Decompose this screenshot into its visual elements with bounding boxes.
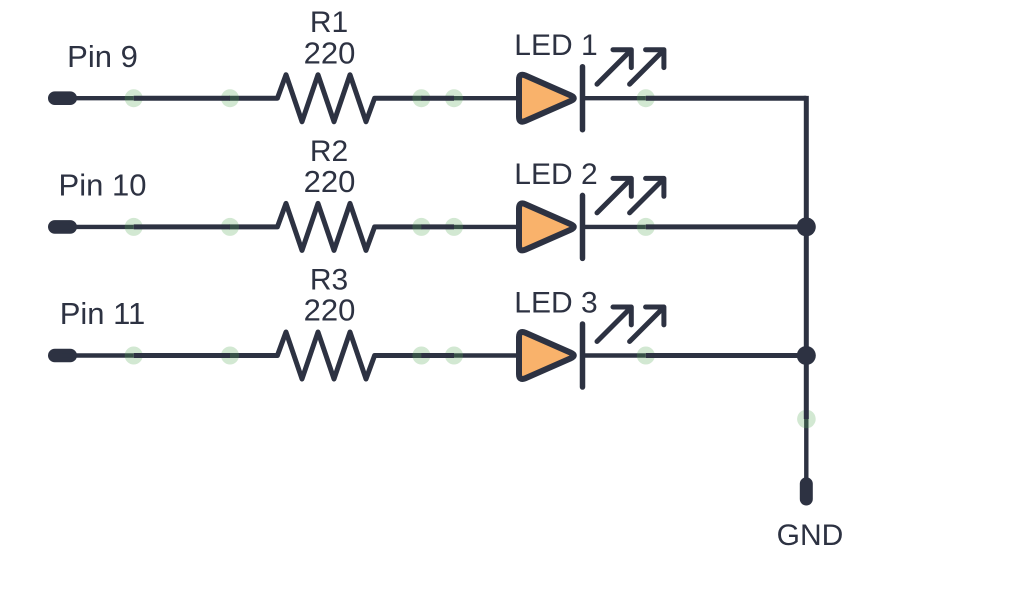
svg-text:220: 220	[304, 164, 356, 199]
svg-text:Pin 9: Pin 9	[67, 39, 138, 74]
svg-text:R1: R1	[310, 6, 348, 39]
svg-text:Pin 10: Pin 10	[59, 168, 147, 203]
svg-text:220: 220	[304, 293, 356, 328]
svg-text:LED 2: LED 2	[514, 158, 597, 191]
svg-text:220: 220	[304, 35, 356, 70]
svg-text:LED 3: LED 3	[514, 287, 597, 320]
svg-text:GND: GND	[777, 519, 844, 552]
svg-text:Pin 11: Pin 11	[60, 296, 146, 331]
svg-text:R3: R3	[310, 264, 348, 297]
svg-text:LED 1: LED 1	[514, 29, 597, 62]
svg-text:R2: R2	[310, 135, 348, 168]
